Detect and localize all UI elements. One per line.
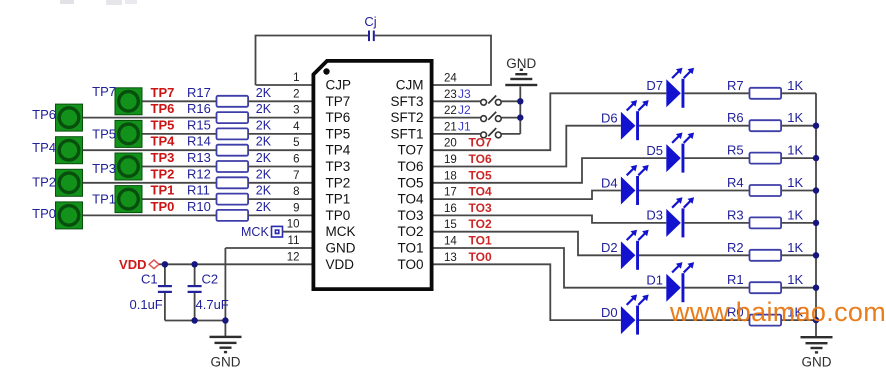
svg-text:8: 8 (293, 186, 299, 198)
svg-text:D0: D0 (601, 305, 618, 320)
svg-text:R4: R4 (727, 175, 744, 190)
svg-text:7: 7 (293, 170, 299, 182)
svg-text:R5: R5 (727, 143, 744, 158)
svg-text:TP6: TP6 (151, 101, 175, 116)
svg-text:www.baimao.com: www.baimao.com (669, 297, 886, 327)
svg-text:14: 14 (444, 236, 457, 248)
svg-text:R12: R12 (187, 166, 211, 181)
svg-text:17: 17 (444, 187, 457, 199)
svg-text:23: 23 (444, 89, 457, 101)
svg-text:D1: D1 (646, 273, 663, 288)
svg-text:TO4: TO4 (397, 192, 424, 207)
svg-text:TP5: TP5 (151, 117, 175, 132)
svg-text:TO6: TO6 (469, 152, 492, 166)
svg-text:1K: 1K (787, 240, 803, 255)
svg-text:VDD: VDD (119, 257, 146, 272)
svg-text:TP4: TP4 (32, 140, 56, 155)
svg-text:TP6: TP6 (32, 107, 56, 122)
svg-text:TO0: TO0 (469, 250, 492, 264)
svg-text:R13: R13 (187, 150, 211, 165)
svg-text:R15: R15 (187, 117, 211, 132)
svg-text:R6: R6 (727, 110, 744, 125)
svg-text:J2: J2 (458, 103, 471, 117)
svg-text:TO4: TO4 (469, 185, 492, 199)
svg-text:CJP: CJP (326, 78, 352, 93)
svg-text:TP1: TP1 (151, 183, 175, 198)
svg-text:D2: D2 (601, 240, 618, 255)
svg-text:10: 10 (287, 219, 300, 231)
svg-text:1K: 1K (787, 110, 803, 125)
svg-text:Cj: Cj (364, 14, 376, 29)
svg-text:1K: 1K (787, 272, 803, 287)
svg-text:16: 16 (444, 203, 457, 215)
svg-text:GND: GND (211, 354, 241, 369)
svg-text:22: 22 (444, 105, 457, 117)
svg-text:2K: 2K (256, 135, 272, 149)
svg-text:SFT1: SFT1 (390, 126, 423, 141)
svg-text:D6: D6 (601, 111, 618, 126)
svg-text:TP2: TP2 (326, 175, 351, 190)
svg-text:TO7: TO7 (469, 136, 492, 150)
svg-text:9: 9 (293, 202, 299, 214)
svg-text:TP4: TP4 (326, 143, 351, 158)
svg-text:2K: 2K (256, 184, 272, 198)
svg-text:TP1: TP1 (326, 192, 351, 207)
svg-text:1K: 1K (787, 78, 803, 93)
svg-text:TP0: TP0 (151, 199, 175, 214)
svg-text:2K: 2K (256, 151, 272, 165)
svg-text:1: 1 (293, 72, 299, 84)
svg-text:TO5: TO5 (469, 168, 492, 182)
svg-text:2K: 2K (256, 102, 272, 116)
svg-text:TO0: TO0 (397, 257, 423, 272)
svg-text:TO7: TO7 (397, 143, 423, 158)
svg-text:TP3: TP3 (92, 161, 116, 176)
svg-text:TO6: TO6 (397, 159, 423, 174)
svg-text:R14: R14 (187, 134, 211, 149)
svg-text:TO2: TO2 (397, 224, 423, 239)
svg-text:TP5: TP5 (92, 127, 116, 142)
svg-text:21: 21 (444, 121, 457, 133)
svg-text:TO2: TO2 (469, 217, 492, 231)
svg-text:2K: 2K (256, 86, 272, 100)
svg-text:TO1: TO1 (397, 241, 423, 256)
svg-text:TP4: TP4 (151, 134, 176, 149)
svg-text:TP6: TP6 (326, 110, 351, 125)
svg-text:TP7: TP7 (326, 94, 351, 109)
svg-text:6: 6 (293, 154, 299, 166)
svg-text:C1: C1 (141, 272, 158, 287)
svg-text:3: 3 (293, 105, 299, 117)
svg-text:2K: 2K (256, 118, 272, 132)
svg-text:R3: R3 (727, 207, 744, 222)
svg-text:C2: C2 (202, 272, 219, 287)
svg-text:R7: R7 (727, 78, 744, 93)
svg-text:GND: GND (506, 56, 536, 71)
svg-text:R2: R2 (727, 240, 744, 255)
svg-text:VDD: VDD (326, 257, 355, 272)
svg-text:4: 4 (293, 121, 300, 133)
svg-text:R1: R1 (727, 272, 744, 287)
svg-text:TP3: TP3 (151, 150, 175, 165)
svg-text:2: 2 (293, 88, 299, 100)
svg-text:1K: 1K (787, 143, 803, 158)
svg-text:24: 24 (444, 73, 457, 85)
svg-text:18: 18 (444, 170, 457, 182)
svg-text:1K: 1K (787, 207, 803, 222)
svg-text:R17: R17 (187, 85, 211, 100)
svg-text:MCK: MCK (241, 225, 269, 239)
svg-text:13: 13 (444, 252, 457, 264)
svg-text:1K: 1K (787, 175, 803, 190)
svg-text:TP2: TP2 (151, 166, 175, 181)
svg-text:R10: R10 (187, 199, 211, 214)
svg-text:SFT2: SFT2 (390, 110, 423, 125)
svg-text:D4: D4 (601, 175, 618, 190)
svg-text:TP3: TP3 (326, 159, 351, 174)
svg-text:TP1: TP1 (92, 191, 116, 206)
svg-text:TO3: TO3 (397, 208, 423, 223)
svg-text:SFT3: SFT3 (390, 94, 423, 109)
svg-text:12: 12 (287, 251, 300, 263)
svg-text:GND: GND (326, 241, 356, 256)
svg-text:15: 15 (444, 219, 457, 231)
svg-text:19: 19 (444, 154, 457, 166)
svg-text:GND: GND (802, 355, 832, 370)
svg-text:4.7uF: 4.7uF (196, 297, 229, 312)
svg-text:TP0: TP0 (326, 208, 351, 223)
svg-text:D3: D3 (646, 208, 663, 223)
svg-text:TP2: TP2 (32, 175, 56, 190)
svg-text:TP5: TP5 (326, 126, 351, 141)
svg-text:D5: D5 (646, 143, 663, 158)
svg-text:CJM: CJM (396, 78, 424, 93)
svg-text:11: 11 (288, 235, 300, 247)
svg-text:MCK: MCK (326, 224, 356, 239)
svg-text:TO5: TO5 (397, 175, 423, 190)
svg-text:5: 5 (293, 137, 299, 149)
svg-text:TP7: TP7 (151, 85, 175, 100)
svg-text:20: 20 (444, 138, 457, 150)
svg-text:TP7: TP7 (92, 84, 116, 99)
svg-text:R16: R16 (187, 101, 211, 116)
svg-text:J3: J3 (458, 87, 471, 101)
svg-text:D7: D7 (646, 78, 663, 93)
svg-text:0.1uF: 0.1uF (130, 297, 163, 312)
svg-text:TP0: TP0 (32, 206, 56, 221)
svg-text:TO3: TO3 (469, 201, 492, 215)
svg-text:TO1: TO1 (469, 234, 492, 248)
svg-text:R11: R11 (187, 183, 210, 198)
svg-text:2K: 2K (256, 167, 272, 181)
svg-text:2K: 2K (256, 200, 272, 214)
svg-text:J1: J1 (458, 119, 471, 133)
